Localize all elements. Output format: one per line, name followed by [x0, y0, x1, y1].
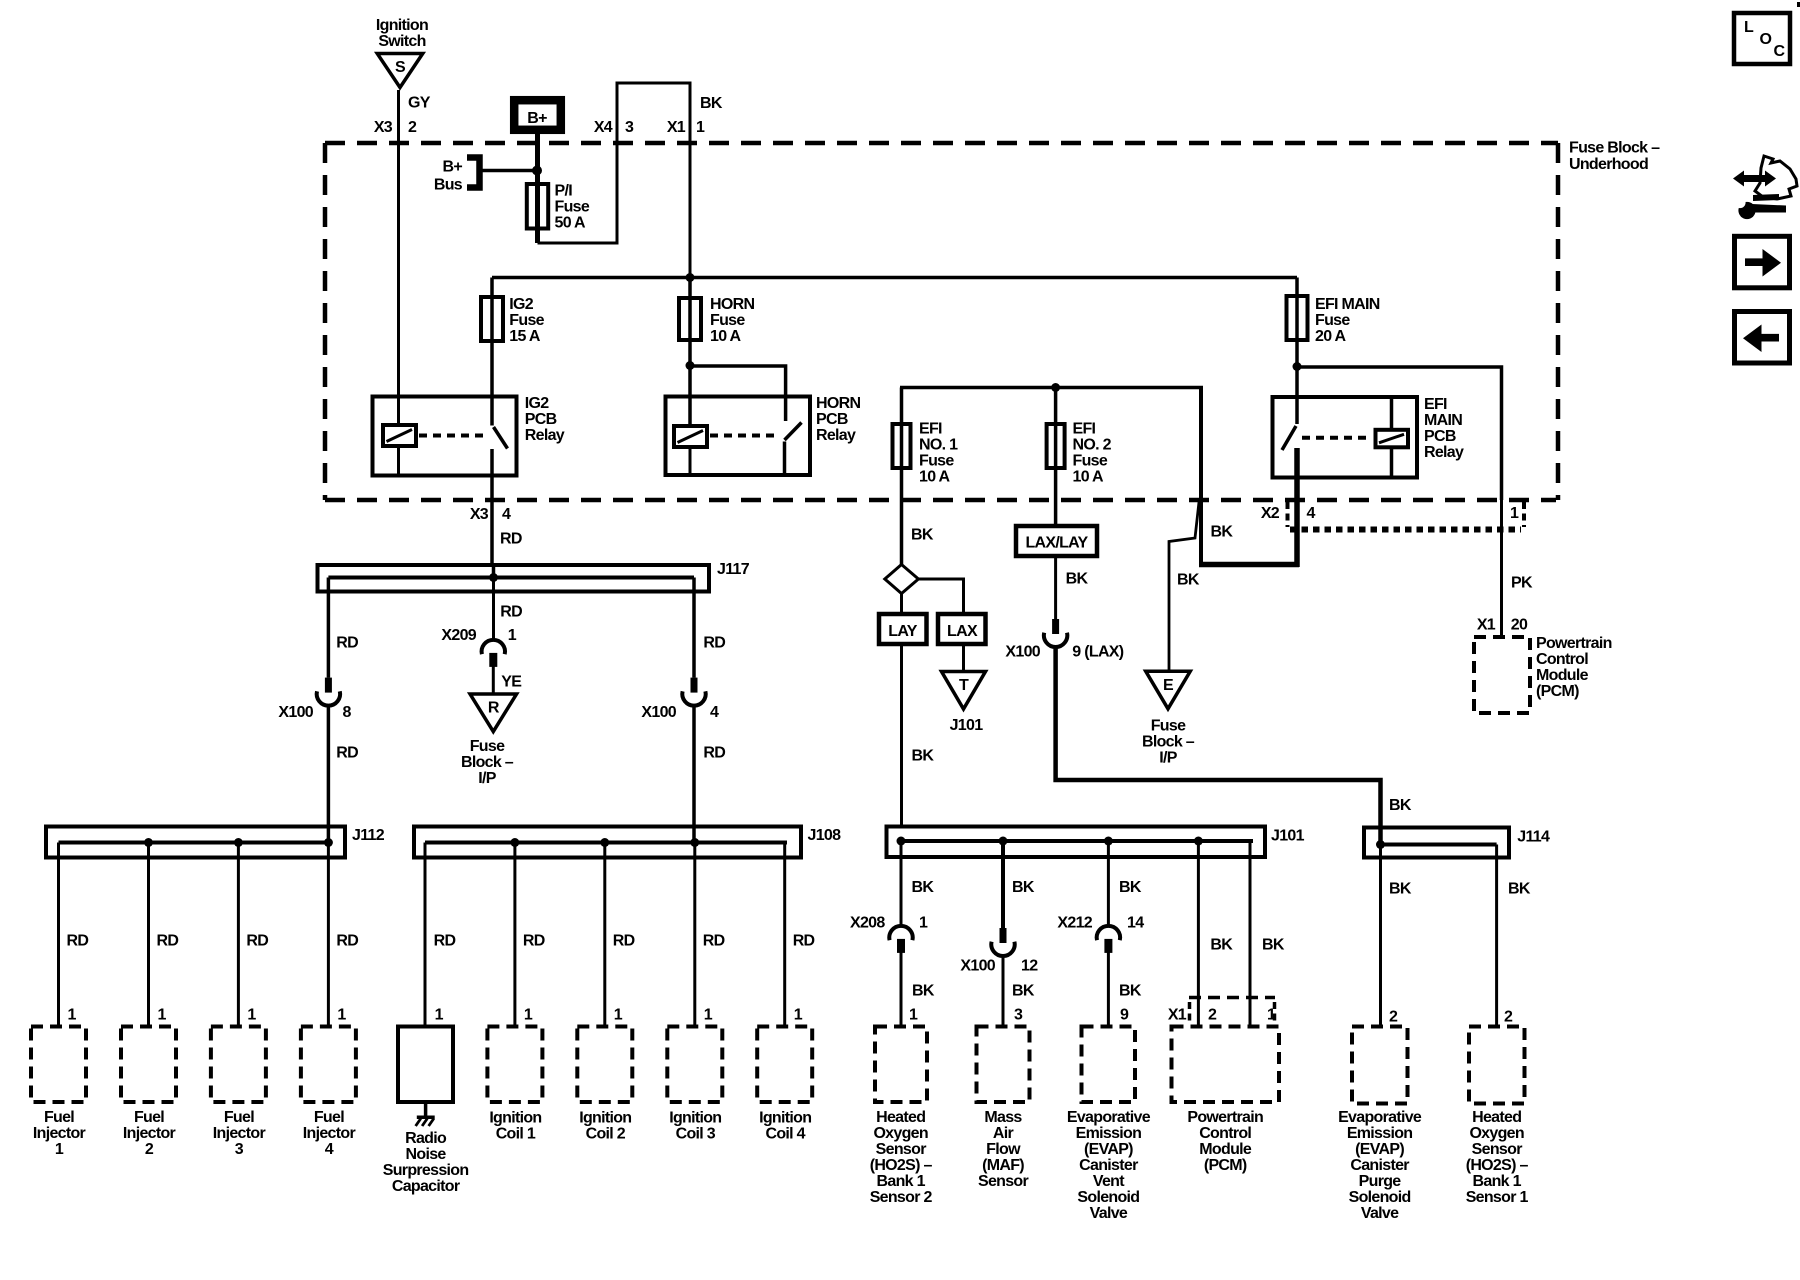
- svg-text:J101: J101: [950, 717, 984, 734]
- connector X100 pin 8: [278, 678, 351, 721]
- connector X212 pin 14: [1057, 915, 1144, 953]
- svg-text:2: 2: [1389, 1009, 1398, 1026]
- svg-text:1: 1: [704, 1007, 713, 1024]
- component Fuel Injector 3: [211, 1027, 266, 1159]
- svg-text:Radio: Radio: [405, 1130, 447, 1147]
- svg-text:1: 1: [919, 915, 928, 932]
- svg-text:1: 1: [247, 1007, 256, 1024]
- svg-text:Relay: Relay: [525, 427, 565, 444]
- svg-text:EFI: EFI: [1424, 396, 1447, 413]
- svg-text:14: 14: [1127, 915, 1144, 932]
- wire J108 to ignition coil 4 (RD pin 1): [785, 843, 815, 1027]
- bus bar J101: [887, 827, 1305, 858]
- wire IG2 coil return: [397, 446, 400, 476]
- svg-text:Injector: Injector: [303, 1125, 356, 1142]
- component Fuel Injector 2: [121, 1027, 176, 1159]
- battery feed B+: [514, 100, 561, 130]
- svg-text:10 A: 10 A: [1073, 469, 1105, 486]
- svg-text:Fuse: Fuse: [509, 312, 544, 329]
- wire J117 left drop (RD) to X100 pin 8: [328, 578, 358, 678]
- svg-text:Air: Air: [993, 1125, 1014, 1142]
- wire X100 8 to J112 (RD): [328, 704, 358, 843]
- connector X2 pins 4 and 1: [1261, 502, 1524, 530]
- svg-text:1: 1: [696, 119, 705, 136]
- svg-text:12: 12: [1021, 958, 1038, 975]
- svg-text:2: 2: [145, 1141, 154, 1158]
- svg-text:Sensor: Sensor: [1472, 1141, 1523, 1158]
- svg-text:9 (LAX): 9 (LAX): [1072, 644, 1123, 661]
- wire J108 to ignition coil 1 (RD pin 1): [515, 843, 545, 1027]
- svg-text:RD: RD: [336, 745, 358, 762]
- svg-text:Fuse: Fuse: [1073, 453, 1108, 470]
- svg-text:10 A: 10 A: [710, 328, 742, 345]
- svg-text:20: 20: [1511, 617, 1528, 634]
- wire IG2 relay output X3 pin 4 (RD) to J117: [470, 476, 522, 565]
- svg-text:LAX: LAX: [947, 623, 978, 640]
- wire J114 to HO2S bank1 sensor1 (BK pin 2): [1497, 845, 1531, 1027]
- module PCM connector X1 20 dashed box: [1474, 635, 1612, 713]
- svg-text:X2: X2: [1261, 505, 1280, 522]
- svg-text:RD: RD: [246, 933, 268, 950]
- svg-text:X208: X208: [850, 915, 885, 932]
- svg-text:1: 1: [1267, 1007, 1276, 1024]
- svg-text:B+: B+: [527, 110, 547, 127]
- svg-text:X1: X1: [667, 119, 686, 136]
- svg-text:X100: X100: [960, 958, 995, 975]
- svg-text:Bus: Bus: [434, 177, 463, 194]
- svg-text:PCB: PCB: [816, 411, 848, 428]
- svg-text:3: 3: [235, 1141, 244, 1158]
- svg-text:Coil 1: Coil 1: [496, 1126, 536, 1143]
- svg-text:B+: B+: [443, 159, 463, 176]
- svg-text:LAY: LAY: [888, 623, 917, 640]
- fuse IG2 15 A: [481, 278, 545, 426]
- svg-text:Module: Module: [1536, 667, 1589, 684]
- svg-text:Ignition: Ignition: [759, 1110, 811, 1127]
- svg-text:NO. 2: NO. 2: [1073, 437, 1112, 454]
- svg-text:Injector: Injector: [123, 1125, 176, 1142]
- svg-text:Canister: Canister: [1079, 1157, 1138, 1174]
- svg-text:1: 1: [909, 1007, 918, 1024]
- svg-text:Fuse: Fuse: [1315, 312, 1350, 329]
- svg-text:1: 1: [158, 1007, 167, 1024]
- svg-text:BK: BK: [1119, 879, 1142, 896]
- wire EFI MAIN fuse to relay and PCM tap: [1293, 362, 1502, 500]
- svg-text:Bank 1: Bank 1: [877, 1173, 926, 1190]
- svg-text:Module: Module: [1199, 1141, 1252, 1158]
- svg-text:GY: GY: [408, 95, 431, 112]
- wire J112 to fuel injector 2 (RD pin 1): [149, 843, 179, 1027]
- wire J101 to X100 pin 12 (BK): [1003, 841, 1035, 929]
- junction EFI NO.2 feed: [1051, 383, 1060, 392]
- svg-text:Noise: Noise: [406, 1146, 447, 1163]
- svg-text:X4: X4: [594, 119, 613, 136]
- svg-text:Fuse: Fuse: [710, 312, 745, 329]
- wire X209 to R triangle (YE): [493, 666, 522, 694]
- svg-text:Canister: Canister: [1350, 1157, 1409, 1174]
- fuse block underhood dashed outline: [325, 143, 1558, 500]
- svg-text:1: 1: [68, 1007, 77, 1024]
- relay HORN PCB: [666, 395, 861, 475]
- svg-text:4: 4: [1307, 505, 1316, 522]
- wire fuse block ground to E triangle (BK): [1169, 502, 1200, 671]
- svg-text:Fuel: Fuel: [134, 1109, 164, 1126]
- svg-text:X100: X100: [641, 704, 676, 721]
- svg-text:RD: RD: [500, 604, 522, 621]
- svg-text:X1: X1: [1168, 1007, 1187, 1024]
- wire EFI MAIN relay output X2 pin 4 (BK) to EFI fuses bus: [900, 388, 1299, 568]
- svg-text:15 A: 15 A: [509, 328, 541, 345]
- svg-text:Block –: Block –: [461, 754, 514, 771]
- component Mass Air Flow MAF Sensor: [977, 1027, 1030, 1191]
- svg-text:Powertrain: Powertrain: [1536, 635, 1612, 652]
- svg-text:X100: X100: [1005, 644, 1040, 661]
- svg-text:Ignition: Ignition: [669, 1110, 721, 1127]
- fuse EFI NO. 1 10 A: [893, 388, 959, 566]
- svg-text:S: S: [395, 59, 406, 76]
- component EVAP Canister Vent Solenoid Valve: [1067, 1027, 1151, 1223]
- component Heated Oxygen Sensor HO2S Bank 1 Sensor 2: [870, 1027, 933, 1207]
- wire P/I fuse to fuse block pin X1 1 (BK): [538, 83, 723, 298]
- wire J112 to fuel injector 4 (RD pin 1): [328, 843, 358, 1027]
- wire LAX/LAY to connector X100 pin 9 (BK): [1056, 556, 1089, 619]
- component Ignition Coil 1: [487, 1027, 542, 1143]
- svg-text:BK: BK: [1262, 937, 1285, 954]
- svg-text:BK: BK: [1119, 983, 1142, 1000]
- junction J112 taps: [144, 838, 333, 847]
- svg-text:50 A: 50 A: [555, 215, 587, 232]
- connector X1 pins 2 and 1 on PCM: [1168, 998, 1276, 1025]
- svg-text:Sensor: Sensor: [978, 1173, 1029, 1190]
- svg-text:1: 1: [337, 1007, 346, 1024]
- svg-text:(MAF): (MAF): [982, 1157, 1024, 1174]
- wire HORN coil return: [689, 447, 692, 474]
- svg-text:Heated: Heated: [876, 1109, 925, 1126]
- wire X100 12 to MAF sensor (BK pin 3): [1003, 955, 1035, 1027]
- fuse EFI MAIN 20 A: [1287, 278, 1380, 425]
- svg-text:X3: X3: [470, 506, 489, 523]
- svg-text:Coil 4: Coil 4: [766, 1126, 806, 1143]
- wire ignition switch to IG2 relay coil (GY, X3 pin 2): [374, 90, 431, 425]
- connector X208 pin 1: [850, 915, 928, 953]
- svg-text:BK: BK: [911, 527, 934, 544]
- svg-text:Bank 1: Bank 1: [1473, 1173, 1522, 1190]
- svg-text:Purge: Purge: [1359, 1173, 1402, 1190]
- svg-text:RD: RD: [500, 531, 522, 548]
- junction J114 tap: [1376, 840, 1385, 849]
- svg-text:1: 1: [524, 1007, 533, 1024]
- net label LAX: [918, 579, 985, 644]
- svg-text:Injector: Injector: [33, 1125, 86, 1142]
- svg-text:Surpression: Surpression: [383, 1162, 469, 1179]
- svg-text:YE: YE: [501, 674, 522, 691]
- wire X212 to EVAP vent valve (BK pin 9): [1108, 952, 1141, 1027]
- svg-text:T: T: [959, 677, 969, 694]
- svg-text:2: 2: [1208, 1007, 1217, 1024]
- svg-text:Vent: Vent: [1093, 1173, 1125, 1190]
- wire X100 9 to J114 bus (BK): [1056, 646, 1412, 844]
- svg-text:LAX/LAY: LAX/LAY: [1025, 535, 1088, 552]
- ground symbol T J101: [942, 672, 986, 735]
- node B+ Bus tap: [434, 158, 542, 194]
- bus bar J117: [318, 561, 750, 592]
- svg-text:RD: RD: [703, 635, 725, 652]
- svg-text:Valve: Valve: [1361, 1205, 1399, 1222]
- svg-text:Fuel: Fuel: [314, 1109, 344, 1126]
- wire J101 to PCM X1 pin 2 (BK): [1198, 841, 1233, 1028]
- wire B+ to P/I fuse: [535, 134, 540, 243]
- svg-text:20 A: 20 A: [1315, 328, 1347, 345]
- svg-text:RD: RD: [613, 933, 635, 950]
- connector X100 pin 9 (LAX): [1005, 619, 1123, 661]
- svg-text:Evaporative: Evaporative: [1338, 1109, 1422, 1126]
- svg-text:Emission: Emission: [1076, 1125, 1142, 1142]
- svg-text:J112: J112: [352, 827, 385, 844]
- svg-text:C: C: [1774, 43, 1786, 60]
- svg-text:Valve: Valve: [1090, 1205, 1128, 1222]
- svg-text:X3: X3: [374, 119, 393, 136]
- svg-text:J117: J117: [717, 561, 750, 578]
- svg-text:RD: RD: [793, 933, 815, 950]
- svg-text:BK: BK: [912, 983, 935, 1000]
- component Fuel Injector 4: [301, 1027, 356, 1159]
- wire J101 to PCM X1 pin 1 (BK): [1250, 841, 1285, 1028]
- svg-text:(PCM): (PCM): [1536, 683, 1579, 700]
- svg-text:J114: J114: [1517, 829, 1550, 846]
- wire X208 to HO2S bank1 sensor2 (BK pin 1): [901, 952, 935, 1027]
- svg-text:HORN: HORN: [710, 296, 754, 313]
- svg-text:P/I: P/I: [555, 183, 573, 200]
- svg-text:Ignition: Ignition: [376, 17, 428, 34]
- wire HORN fuse to relay: [686, 361, 786, 421]
- component Heated Oxygen Sensor HO2S Bank 1 Sensor 1: [1466, 1027, 1529, 1207]
- wire J108 to ignition coil 3 (RD pin 1): [695, 843, 725, 1027]
- svg-text:EFI: EFI: [1073, 421, 1096, 438]
- svg-text:RD: RD: [336, 635, 358, 652]
- svg-text:R: R: [488, 700, 500, 717]
- svg-text:2: 2: [1504, 1009, 1513, 1026]
- svg-text:BK: BK: [1508, 881, 1531, 898]
- wire J112 to fuel injector 1 (RD pin 1): [59, 843, 89, 1027]
- splice diamond: [885, 565, 919, 594]
- svg-text:BK: BK: [1012, 879, 1035, 896]
- svg-text:Powertrain: Powertrain: [1187, 1109, 1263, 1126]
- svg-text:X209: X209: [441, 627, 476, 644]
- wire X100 4 to J108 (RD): [694, 704, 725, 843]
- svg-text:Oxygen: Oxygen: [873, 1125, 928, 1142]
- svg-text:Injector: Injector: [213, 1125, 266, 1142]
- svg-text:Coil 3: Coil 3: [676, 1126, 716, 1143]
- svg-text:RD: RD: [336, 933, 358, 950]
- svg-text:IG2: IG2: [509, 296, 533, 313]
- connector X100 pin 4: [641, 678, 719, 721]
- svg-text:NO. 1: NO. 1: [919, 437, 958, 454]
- svg-text:Switch: Switch: [378, 33, 425, 50]
- svg-text:(HO2S) –: (HO2S) –: [870, 1157, 933, 1174]
- svg-text:I/P: I/P: [478, 770, 496, 787]
- svg-text:BK: BK: [1389, 797, 1412, 814]
- wire main feed bus to fuses: [492, 276, 1297, 280]
- bus bar J114: [1364, 828, 1550, 858]
- svg-text:Sensor: Sensor: [876, 1141, 927, 1158]
- svg-text:Oxygen: Oxygen: [1469, 1125, 1524, 1142]
- svg-text:4: 4: [325, 1141, 334, 1158]
- svg-text:IG2: IG2: [525, 395, 549, 412]
- module Powertrain Control Module PCM: [1172, 1027, 1280, 1175]
- svg-text:RD: RD: [434, 933, 456, 950]
- svg-text:Solenoid: Solenoid: [1349, 1189, 1411, 1206]
- icon arrow right box: [1735, 236, 1790, 287]
- wire relay output into J117: [489, 565, 498, 582]
- svg-text:2: 2: [408, 119, 417, 136]
- net label LAY: [879, 594, 927, 645]
- svg-text:O: O: [1760, 31, 1772, 48]
- component Fuel Injector 1: [31, 1027, 86, 1159]
- svg-text:BK: BK: [700, 95, 723, 112]
- wire J108 to ignition coil 2 (RD pin 1): [605, 843, 635, 1027]
- svg-text:Underhood: Underhood: [1569, 156, 1648, 173]
- relay IG2 PCB: [373, 395, 565, 476]
- ground symbol under capacitor: [416, 1102, 435, 1126]
- svg-text:X1: X1: [1477, 617, 1496, 634]
- wire J114 to EVAP purge valve (BK pin 2): [1381, 845, 1412, 1027]
- svg-text:(EVAP): (EVAP): [1355, 1141, 1404, 1158]
- icon LOC box: [1734, 13, 1790, 64]
- svg-text:PK: PK: [1511, 575, 1533, 592]
- svg-text:Fuel: Fuel: [224, 1109, 254, 1126]
- wire J101 to X208 (BK): [901, 841, 934, 926]
- svg-text:EFI: EFI: [919, 421, 942, 438]
- svg-text:9: 9: [1120, 1007, 1129, 1024]
- wire J117 to X209 (RD): [494, 578, 523, 641]
- label Fuse Block - Underhood: [1569, 140, 1660, 174]
- svg-text:(EVAP): (EVAP): [1084, 1141, 1133, 1158]
- svg-text:RD: RD: [67, 933, 89, 950]
- svg-text:Relay: Relay: [816, 427, 856, 444]
- svg-text:3: 3: [625, 119, 634, 136]
- svg-text:Capacitor: Capacitor: [392, 1178, 460, 1195]
- svg-text:Sensor 1: Sensor 1: [1466, 1189, 1529, 1206]
- svg-text:J108: J108: [808, 827, 842, 844]
- svg-text:MAIN: MAIN: [1424, 412, 1462, 429]
- svg-text:1: 1: [435, 1007, 444, 1024]
- fuse HORN 10 A: [679, 278, 754, 427]
- svg-text:Ignition: Ignition: [579, 1110, 631, 1127]
- svg-text:Fuse: Fuse: [919, 453, 954, 470]
- svg-text:Solenoid: Solenoid: [1077, 1189, 1139, 1206]
- svg-text:Emission: Emission: [1347, 1125, 1413, 1142]
- wire J108 to radio capacitor (RD pin 1): [425, 843, 455, 1027]
- bus bar J108: [414, 827, 841, 858]
- svg-text:1: 1: [1510, 505, 1519, 522]
- svg-text:1: 1: [55, 1141, 64, 1158]
- component EVAP Canister Purge Solenoid Valve: [1338, 1027, 1422, 1223]
- wire LAY branch to J101 bus (BK): [902, 644, 935, 828]
- svg-text:BK: BK: [1211, 524, 1234, 541]
- svg-text:1: 1: [508, 627, 517, 644]
- svg-text:Sensor 2: Sensor 2: [870, 1189, 933, 1206]
- wire LAX to J101 ground symbol: [962, 644, 965, 672]
- svg-text:Evaporative: Evaporative: [1067, 1109, 1151, 1126]
- svg-text:X100: X100: [278, 704, 313, 721]
- svg-text:3: 3: [1014, 1007, 1023, 1024]
- component Radio Noise Surpression Capacitor: [383, 1027, 469, 1196]
- svg-text:Fuel: Fuel: [44, 1109, 74, 1126]
- feed symbol R Fuse Block I/P: [461, 694, 517, 787]
- component Ignition Coil 4: [757, 1027, 812, 1143]
- svg-text:BK: BK: [1066, 571, 1089, 588]
- svg-text:L: L: [1744, 19, 1754, 36]
- svg-text:BK: BK: [1177, 572, 1200, 589]
- icon tools: [1733, 156, 1797, 219]
- svg-text:10 A: 10 A: [919, 469, 951, 486]
- svg-text:X212: X212: [1057, 915, 1092, 932]
- svg-text:Ignition: Ignition: [489, 1110, 541, 1127]
- relay EFI MAIN PCB: [1273, 396, 1464, 478]
- connector X100 pin 12: [960, 928, 1038, 975]
- svg-text:Flow: Flow: [986, 1141, 1021, 1158]
- junction J101 taps: [897, 837, 1203, 846]
- bus bar J112: [46, 827, 385, 858]
- svg-text:1: 1: [614, 1007, 623, 1024]
- svg-text:Control: Control: [1536, 651, 1588, 668]
- svg-text:E: E: [1163, 677, 1174, 694]
- svg-text:Fuse: Fuse: [470, 738, 505, 755]
- junction J108 taps: [510, 838, 699, 847]
- svg-text:RD: RD: [703, 745, 725, 762]
- fuse EFI NO. 2 10 A: [1047, 388, 1112, 527]
- wire J101 to X212 (BK): [1108, 841, 1141, 926]
- svg-text:J101: J101: [1271, 828, 1305, 845]
- svg-text:RD: RD: [703, 933, 725, 950]
- svg-text:Relay: Relay: [1424, 444, 1464, 461]
- wire J112 to fuel injector 3 (RD pin 1): [238, 843, 268, 1027]
- junction at HORN fuse feed: [686, 273, 695, 282]
- fuse P/I 50 A: [527, 183, 590, 232]
- svg-text:BK: BK: [1389, 881, 1412, 898]
- svg-text:PCB: PCB: [525, 411, 557, 428]
- svg-text:Block –: Block –: [1142, 734, 1195, 751]
- connector X209 pin 1: [441, 627, 516, 667]
- wire J117 right drop (RD) to X100 pin 4: [694, 578, 725, 678]
- component Ignition Coil 3: [667, 1027, 722, 1143]
- component Ignition Coil 2: [577, 1027, 632, 1143]
- svg-text:I/P: I/P: [1159, 750, 1177, 767]
- wire EFI NO.1 fuse to splice (BK): [911, 527, 934, 544]
- svg-text:RD: RD: [157, 933, 179, 950]
- ignition switch feed symbol S: [376, 17, 428, 88]
- svg-text:Fuse: Fuse: [555, 199, 590, 216]
- svg-text:Coil 2: Coil 2: [586, 1126, 626, 1143]
- svg-text:Fuse Block –: Fuse Block –: [1569, 140, 1660, 157]
- svg-text:BK: BK: [1210, 937, 1233, 954]
- svg-text:4: 4: [710, 704, 719, 721]
- svg-text:BK: BK: [912, 879, 935, 896]
- svg-text:Fuse: Fuse: [1151, 718, 1186, 735]
- svg-text:EFI MAIN: EFI MAIN: [1315, 296, 1380, 313]
- svg-text:Heated: Heated: [1472, 1109, 1521, 1126]
- wire PK to PCM X1 pin 20: [1477, 500, 1533, 637]
- svg-text:1: 1: [794, 1007, 803, 1024]
- svg-text:BK: BK: [912, 748, 935, 765]
- svg-text:Mass: Mass: [984, 1109, 1022, 1126]
- svg-text:PCB: PCB: [1424, 428, 1456, 445]
- svg-text:8: 8: [343, 704, 352, 721]
- net label LAX/LAY: [1016, 526, 1097, 556]
- ground symbol E Fuse Block I/P: [1142, 671, 1195, 766]
- icon arrow left box: [1735, 312, 1790, 364]
- svg-text:BK: BK: [1012, 983, 1035, 1000]
